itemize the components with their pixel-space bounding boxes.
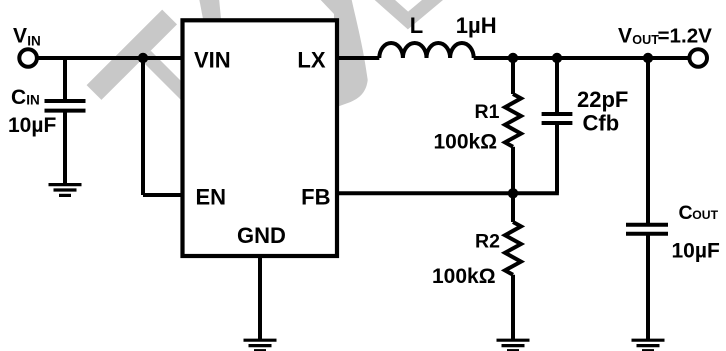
wire: LX to inductor — [337, 56, 379, 60]
ground (GND pin) — [244, 340, 277, 351]
svg-text:=1.2V: =1.2V — [658, 25, 713, 48]
capacitor COUT — [626, 225, 668, 234]
node: LX/R1 junction — [508, 53, 518, 63]
wire: inductor to VOUT terminal — [474, 56, 690, 60]
svg-text:10µF: 10µF — [8, 114, 56, 137]
terminal VOUT — [689, 49, 707, 67]
IC U1 (DC-DC converter) — [183, 20, 338, 256]
wire: R2 top lead — [511, 193, 515, 222]
node: input junction — [138, 53, 148, 63]
capacitor Cfb — [542, 114, 573, 123]
wire: VIN terminal to IC VIN pin — [37, 56, 183, 60]
wire: R1 top lead — [511, 58, 515, 94]
wire: Cfb top lead — [555, 58, 559, 113]
svg-text:C: C — [679, 202, 693, 224]
svg-text:10µF: 10µF — [672, 240, 720, 263]
node: Cfb junction — [552, 53, 562, 63]
watermark — [94, 0, 445, 108]
inductor L — [379, 43, 473, 58]
svg-text:V: V — [618, 25, 632, 48]
svg-text:OUT: OUT — [692, 208, 718, 222]
capacitor CIN — [45, 101, 86, 111]
wire: CIN top lead — [63, 58, 67, 100]
wire: Cfb bottom lead — [555, 124, 559, 193]
resistor R2 — [505, 222, 521, 275]
svg-text:C: C — [11, 86, 26, 109]
svg-text:1µH: 1µH — [456, 13, 497, 38]
svg-text:LX: LX — [297, 48, 325, 73]
svg-text:L: L — [410, 13, 423, 38]
ground (R2) — [497, 340, 530, 351]
svg-text:GND: GND — [237, 223, 286, 248]
svg-text:VIN: VIN — [194, 48, 231, 73]
wire: EN feed vertical — [141, 58, 145, 195]
wire: GND pin lead — [258, 255, 262, 340]
resistor R1 — [505, 94, 521, 147]
svg-text:R2: R2 — [475, 230, 500, 252]
svg-text:EN: EN — [196, 185, 227, 210]
svg-text:OUT: OUT — [632, 33, 659, 47]
wire: FB line — [337, 191, 559, 195]
svg-text:100kΩ: 100kΩ — [432, 265, 496, 288]
svg-text:IN: IN — [27, 33, 41, 48]
wire: EN feed horizontal — [143, 193, 183, 197]
svg-text:IN: IN — [26, 93, 40, 108]
svg-text:R1: R1 — [475, 101, 500, 123]
svg-text:22pF: 22pF — [577, 87, 628, 112]
wire: R2 bottom lead — [511, 275, 515, 340]
ground (COUT) — [632, 340, 665, 351]
svg-text:FB: FB — [301, 185, 330, 210]
svg-text:V: V — [13, 25, 27, 48]
svg-text:100kΩ: 100kΩ — [434, 131, 498, 154]
node: COUT junction — [643, 53, 653, 63]
wire: COUT bottom lead — [646, 235, 650, 341]
terminal VIN — [19, 49, 37, 67]
node: FB junction — [508, 188, 518, 198]
wire: CIN bottom lead — [63, 112, 67, 185]
wire: R1 bottom lead — [511, 147, 515, 194]
svg-text:Cfb: Cfb — [583, 111, 620, 136]
wire: COUT top lead — [646, 58, 650, 223]
ground (CIN) — [49, 185, 82, 196]
